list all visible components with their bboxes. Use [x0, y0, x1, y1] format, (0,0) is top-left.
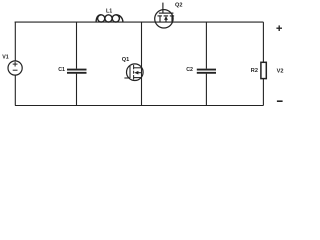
wire left rail lower	[14, 75, 16, 105]
svg-text:Q2: Q2	[175, 3, 182, 9]
wire top rail	[15, 21, 264, 23]
svg-text:V2: V2	[277, 68, 284, 74]
wire R2 branch upper	[262, 22, 264, 62]
capacitor C1	[67, 70, 87, 73]
svg-text:R2: R2	[251, 68, 258, 74]
wire R2 branch lower	[262, 79, 264, 106]
wire C2 branch lower	[205, 74, 207, 106]
wire bottom rail	[15, 105, 263, 107]
wire left rail upper	[14, 22, 16, 61]
transistor Q1	[127, 64, 144, 81]
inductor L1	[96, 15, 123, 23]
resistor R2	[261, 62, 266, 78]
svg-text:C2: C2	[186, 67, 193, 73]
voltage source V1	[8, 61, 22, 75]
svg-text:Q1: Q1	[122, 57, 129, 63]
wire C2 branch upper	[205, 22, 207, 69]
wire C1 branch upper	[76, 22, 78, 69]
svg-text:C1: C1	[58, 67, 65, 73]
wire C1 branch lower	[76, 74, 78, 106]
svg-text:V1: V1	[2, 55, 9, 61]
svg-text:L1: L1	[106, 9, 112, 15]
minus terminal	[277, 100, 283, 102]
capacitor C2	[197, 70, 216, 73]
wire Q1 branch	[141, 22, 143, 105]
plus terminal	[276, 25, 282, 31]
transistor Q2	[155, 10, 173, 28]
